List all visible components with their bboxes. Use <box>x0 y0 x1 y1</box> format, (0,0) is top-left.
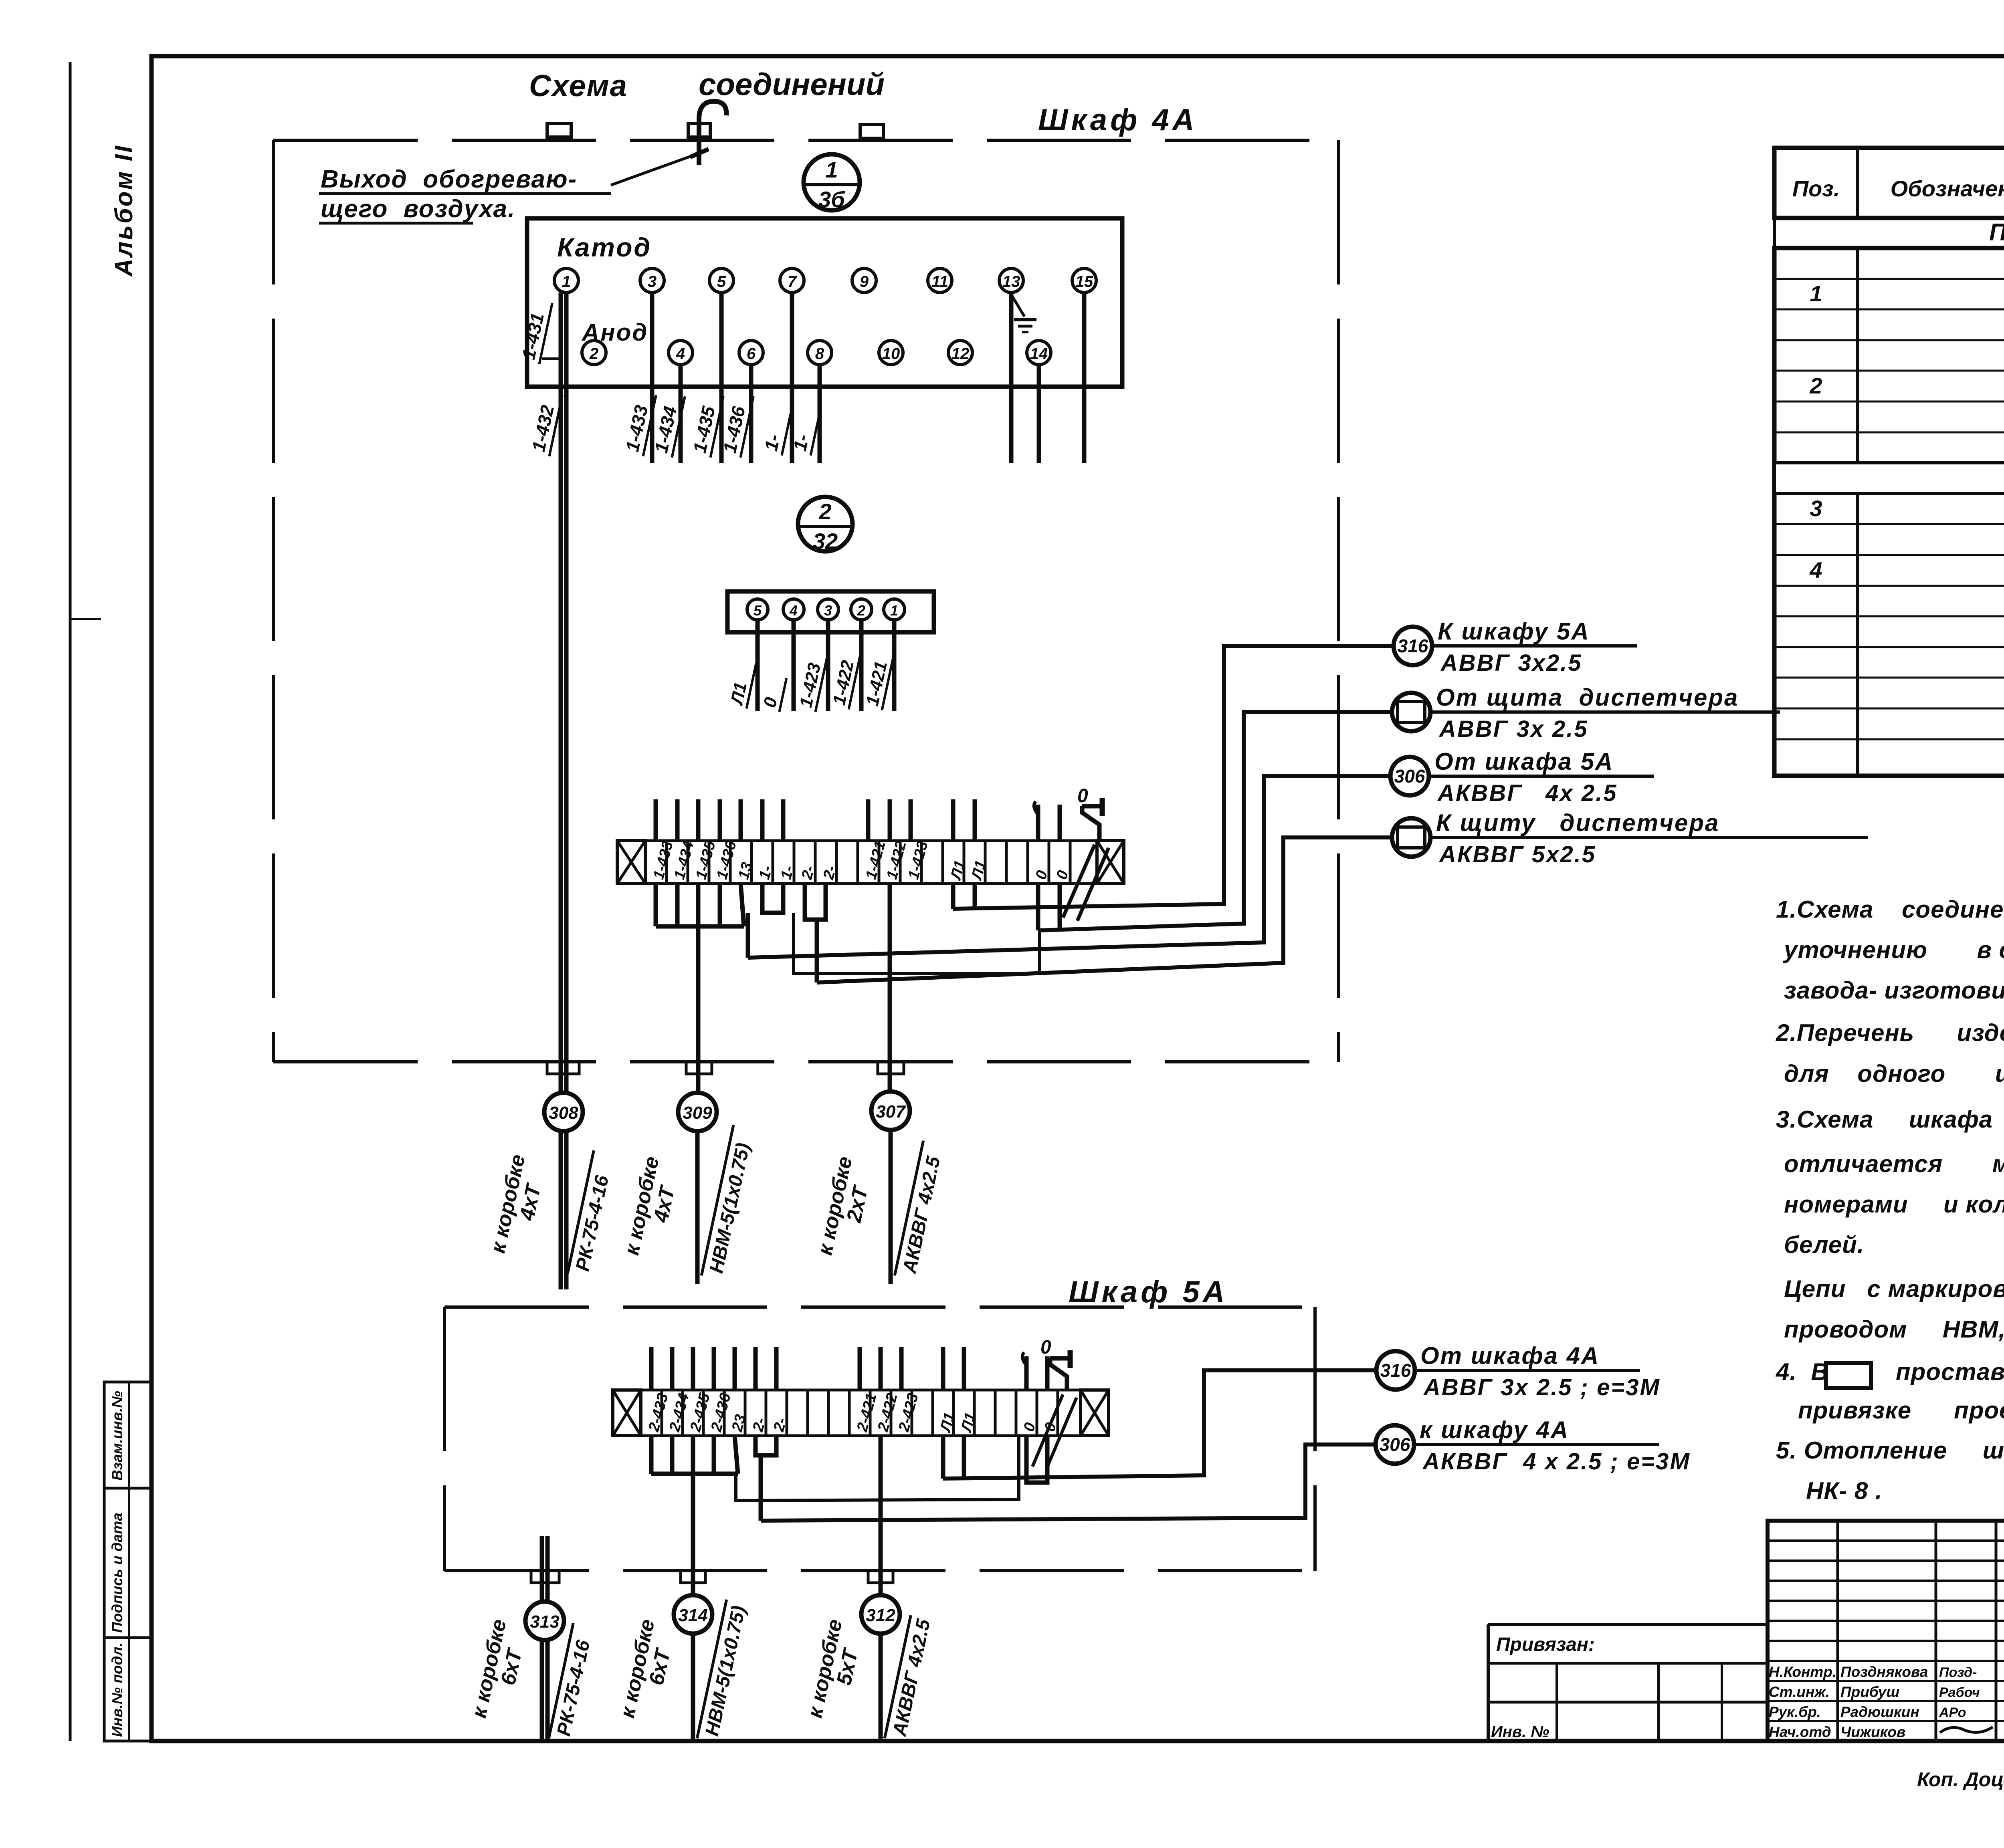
svg-text:Рук.бр.: Рук.бр. <box>1769 1704 1821 1720</box>
svg-text:НВМ-5(1х0.75): НВМ-5(1х0.75) <box>706 1141 754 1275</box>
svg-text:3б: 3б <box>818 187 845 212</box>
svg-text:1: 1 <box>825 157 838 182</box>
svg-text:11: 11 <box>931 273 948 291</box>
svg-text:306: 306 <box>1380 1434 1410 1455</box>
svg-text:3: 3 <box>824 602 832 619</box>
svg-text:1-435: 1-435 <box>689 404 719 455</box>
svg-text:Прочие изделия: Прочие изделия <box>1989 219 2004 246</box>
svg-text:Рабоч: Рабоч <box>1939 1685 1980 1700</box>
svg-text:к шкафу 4А: к шкафу 4А <box>1420 1416 1569 1443</box>
svg-text:Привязан:: Привязан: <box>1496 1634 1595 1655</box>
svg-text:2: 2 <box>1809 373 1822 398</box>
svg-text:1.Схема соединений кис: 1.Схема соединений кислородомера подлежи… <box>1776 896 2004 923</box>
svg-text:Л1: Л1 <box>958 1411 979 1434</box>
svg-text:уточнению в соответствии: уточнению в соответствии с инструкцией <box>1783 936 2004 963</box>
svg-text:1: 1 <box>890 602 898 619</box>
svg-text:Шкаф 5А: Шкаф 5А <box>1069 1275 1228 1309</box>
svg-text:Взам.инв.№: Взам.инв.№ <box>109 1391 125 1481</box>
svg-text:АВВГ 3х 2.5: АВВГ 3х 2.5 <box>1438 716 1588 742</box>
svg-text:К шкафу 5А: К шкафу 5А <box>1438 618 1590 645</box>
svg-text:От щита диспетчера: От щита диспетчера <box>1436 684 1739 711</box>
svg-text:Н.Контр.: Н.Контр. <box>1769 1664 1836 1680</box>
svg-text:15: 15 <box>1075 273 1093 291</box>
svg-text:312: 312 <box>866 1606 895 1625</box>
svg-text:2.Перечень изделий и: 2.Перечень изделий и материалов приведен… <box>1776 1019 2004 1046</box>
svg-text:1-431: 1-431 <box>518 311 548 361</box>
svg-text:307: 307 <box>876 1102 906 1122</box>
svg-text:отличается маркировкой: отличается маркировкой жил , <box>1784 1150 2004 1177</box>
svg-text:Чижиков: Чижиков <box>1840 1724 1905 1740</box>
svg-text:0: 0 <box>1077 785 1088 807</box>
svg-text:1: 1 <box>562 273 571 291</box>
svg-text:5. Отопление шкафов КИ: 5. Отопление шкафов КИП см . лист <box>1776 1437 2004 1464</box>
svg-text:0: 0 <box>1040 1337 1051 1358</box>
svg-text:316: 316 <box>1398 636 1428 656</box>
svg-text:1-433: 1-433 <box>622 403 652 454</box>
svg-text:Ст.инж.: Ст.инж. <box>1769 1684 1830 1700</box>
svg-text:завода- изготовителя.: завода- изготовителя. <box>1784 977 2004 1004</box>
svg-text:Цепи с маркировками 433 ÷: Цепи с маркировками 433 ÷ 437 монтируютс… <box>1784 1275 2004 1302</box>
svg-text:АКВВГ 4х2.5: АКВВГ 4х2.5 <box>889 1617 935 1738</box>
svg-text:32: 32 <box>813 529 838 554</box>
svg-text:От шкафа 4А: От шкафа 4А <box>1420 1342 1600 1369</box>
svg-text:1-432: 1-432 <box>528 403 558 454</box>
svg-text:К щиту диспетчера: К щиту диспетчера <box>1436 809 1719 836</box>
svg-text:3: 3 <box>648 273 657 291</box>
svg-text:2: 2 <box>818 499 831 524</box>
svg-text:АКВВГ 5х2.5: АКВВГ 5х2.5 <box>1438 841 1596 868</box>
svg-text:Инв. №: Инв. № <box>1491 1723 1549 1741</box>
svg-text:Шкаф 4А: Шкаф 4А <box>1038 103 1198 137</box>
svg-text:12: 12 <box>951 345 970 363</box>
svg-text:6: 6 <box>747 345 756 363</box>
svg-text:13: 13 <box>1002 273 1020 291</box>
svg-text:4: 4 <box>1809 557 1822 583</box>
svg-text:14: 14 <box>1030 345 1048 363</box>
svg-text:щего воздуха.: щего воздуха. <box>321 195 515 223</box>
svg-text:316: 316 <box>1380 1360 1411 1381</box>
svg-text:АКВВГ 4х 2.5: АКВВГ 4х 2.5 <box>1437 780 1618 806</box>
svg-text:Катод: Катод <box>557 232 652 262</box>
svg-text:Альбом II: Альбом II <box>110 144 138 277</box>
svg-text:1-434: 1-434 <box>650 404 681 455</box>
svg-text:АВВГ 3х2.5: АВВГ 3х2.5 <box>1440 650 1582 676</box>
svg-text:Поз.: Поз. <box>1792 176 1840 201</box>
svg-text:Л1: Л1 <box>937 1411 958 1434</box>
svg-text:Подпись и дата: Подпись и дата <box>109 1513 125 1633</box>
svg-text:привязке проекта.: привязке проекта. <box>1798 1397 2004 1424</box>
svg-text:4: 4 <box>789 602 798 619</box>
svg-text:Выход обогреваю-: Выход обогреваю- <box>321 165 577 193</box>
svg-text:3.Схема шкафа 5А а: 3.Схема шкафа 5А аналогична данной и <box>1776 1106 2004 1133</box>
svg-text:Радюшкин: Радюшкин <box>1840 1704 1919 1720</box>
svg-text:Схема: Схема <box>529 69 628 103</box>
svg-text:Позднякова: Позднякова <box>1840 1664 1928 1680</box>
svg-text:проводом НВМ, остальны: проводом НВМ, остальные — проводом ПВ3. <box>1784 1316 2004 1343</box>
svg-text:белей.: белей. <box>1784 1231 1864 1258</box>
svg-text:АКВВГ 4х2.5: АКВВГ 4х2.5 <box>899 1154 945 1275</box>
svg-text:Позд-: Позд- <box>1939 1665 1977 1680</box>
svg-text:АРо: АРо <box>1939 1705 1966 1720</box>
svg-text:1: 1 <box>1810 281 1822 306</box>
svg-text:3: 3 <box>1810 496 1822 521</box>
svg-text:5: 5 <box>717 273 726 291</box>
svg-text:2: 2 <box>857 602 865 619</box>
svg-text:306: 306 <box>1394 766 1425 787</box>
svg-text:1-: 1- <box>760 432 784 453</box>
svg-text:АВВГ 3х 2.5 ; е=3М: АВВГ 3х 2.5 ; е=3М <box>1423 1374 1661 1400</box>
svg-text:для одного шкафа 4: для одного шкафа 4А. <box>1784 1060 2004 1087</box>
svg-text:АКВВГ 4 х 2.5 ; е=3М: АКВВГ 4 х 2.5 ; е=3М <box>1422 1449 1691 1475</box>
svg-text:4: 4 <box>676 345 685 363</box>
svg-text:7: 7 <box>788 273 797 291</box>
svg-text:8: 8 <box>815 345 824 363</box>
svg-text:Нач.отд: Нач.отд <box>1769 1724 1831 1740</box>
svg-text:0: 0 <box>760 695 781 709</box>
svg-text:Коп. Доценко: Коп. Доценко <box>1917 1768 2004 1791</box>
svg-text:проставляется номер каб: проставляется номер кабеля при <box>1896 1358 2004 1385</box>
svg-text:5: 5 <box>754 602 762 619</box>
svg-text:номерами и количеством: номерами и количеством отходящих ка- <box>1784 1191 2004 1218</box>
svg-text:10: 10 <box>882 345 900 363</box>
svg-text:308: 308 <box>549 1103 578 1123</box>
svg-text:2: 2 <box>589 345 598 363</box>
svg-text:9: 9 <box>860 273 869 291</box>
svg-text:309: 309 <box>683 1103 712 1123</box>
svg-text:соединений: соединений <box>699 67 885 102</box>
svg-text:Обозначение: Обозначение <box>1891 176 2004 201</box>
svg-text:Инв.№ подл.: Инв.№ подл. <box>109 1642 125 1737</box>
svg-text:313: 313 <box>530 1612 559 1632</box>
svg-text:314: 314 <box>678 1606 707 1625</box>
svg-text:Прибуш: Прибуш <box>1840 1684 1899 1700</box>
svg-text:Л1: Л1 <box>947 859 969 882</box>
svg-text:НК- 8 .: НК- 8 . <box>1806 1477 1883 1504</box>
svg-text:4. В: 4. В <box>1776 1358 1829 1385</box>
svg-text:От шкафа 5А: От шкафа 5А <box>1434 748 1614 775</box>
